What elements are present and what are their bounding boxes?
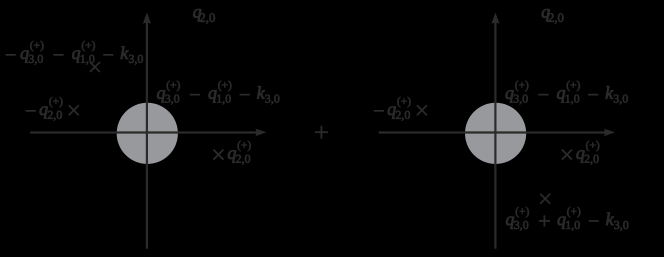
label -q(+)3,0 - q(+)1,0 - k3,0 (top left): [6, 41, 143, 65]
label q(+)3,0 - q(+)1,0 - k3,0 (upper right of right circle): [506, 81, 628, 105]
left vertical axis with arrow: [143, 13, 151, 249]
cross mark above bottom-right label: [540, 194, 550, 204]
left horizontal axis with arrow: [30, 129, 266, 137]
label q(+)3,0 + q(+)1,0 - k3,0 (bottom right): [506, 207, 628, 231]
label x q(+)2,0 (below right horizontal axis): [562, 141, 599, 165]
label q(+)3,0 - q(+)1,0 - k3,0 (upper right of left circle): [157, 81, 279, 105]
left circle (pole region): [117, 103, 178, 164]
cross mark under top-left label: [90, 62, 100, 72]
label q2,0 (right vertical axis name): [542, 9, 564, 24]
right horizontal axis with arrow: [379, 129, 615, 137]
label -q(+)2,0 x (left of right circle): [374, 97, 427, 121]
right vertical axis with arrow: [491, 13, 499, 249]
plus sign between the two diagrams: [315, 126, 328, 139]
label x q(+)2,0 (below left horizontal axis): [213, 141, 250, 165]
label q2,0 (left vertical axis name): [193, 9, 215, 24]
label -q(+)2,0 x (left of left circle): [26, 97, 79, 121]
right circle (pole region): [465, 103, 526, 164]
